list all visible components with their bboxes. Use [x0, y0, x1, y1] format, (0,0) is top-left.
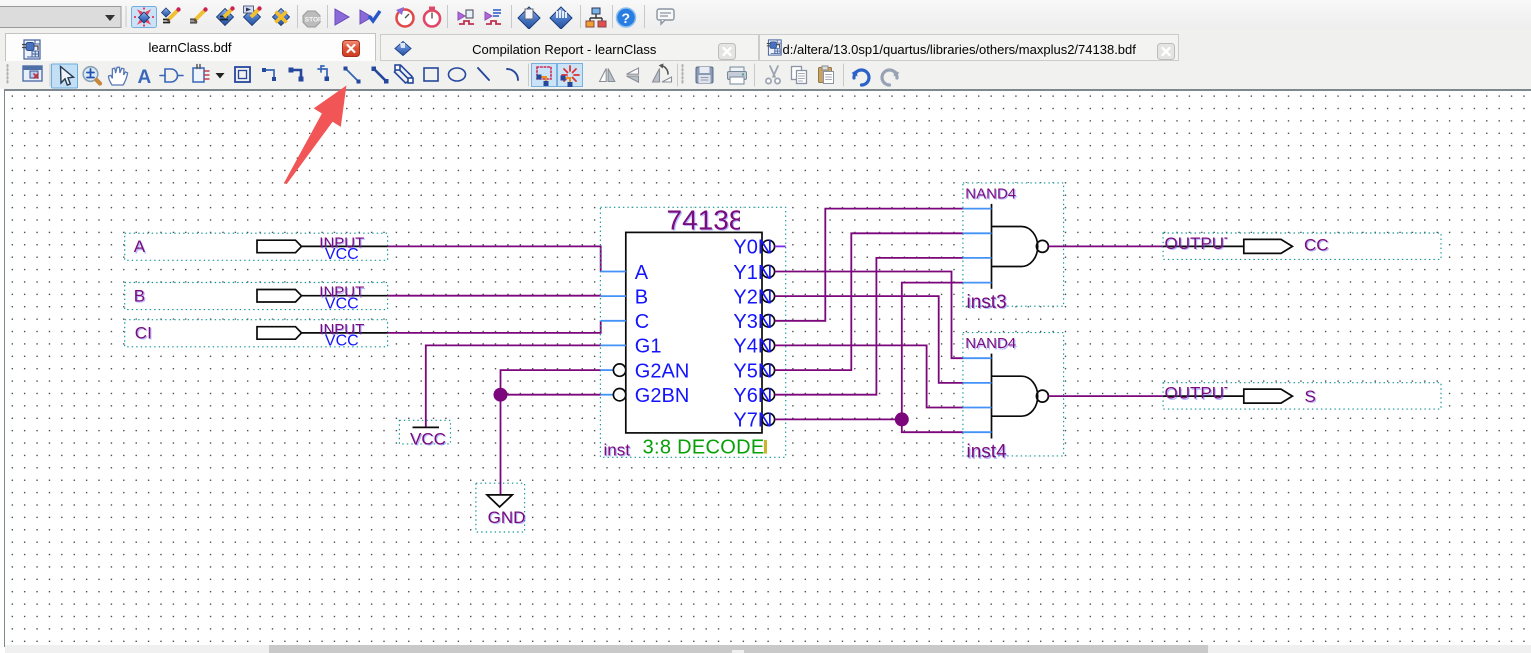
redo	[882, 70, 899, 85]
NAND4 gate inst3	[963, 183, 1064, 314]
output pin CC	[1163, 233, 1441, 259]
output bubbles Y0N-Y7N	[762, 240, 774, 252]
wire junction to NAND4 inst4 input 4	[902, 419, 963, 432]
print	[728, 67, 747, 84]
paste	[819, 66, 834, 84]
partial line off	[558, 64, 583, 87]
pin B stub	[601, 295, 626, 297]
undo	[852, 70, 869, 85]
wire input B to 74138 pin B	[388, 295, 601, 297]
symbol tool	[160, 69, 183, 82]
junction node Y7	[895, 412, 909, 426]
dropdown	[216, 73, 225, 79]
wire NAND4 inst4 output to pin S	[1048, 395, 1163, 397]
wire Y2N to NAND4 inst4 input 2	[775, 296, 963, 383]
diagonal conduit tool	[395, 65, 414, 83]
zoom tool	[83, 67, 100, 84]
run button	[335, 9, 349, 25]
wire Y7N to junction	[775, 418, 902, 420]
cut	[766, 66, 780, 84]
selection tool (active)	[52, 64, 78, 88]
flip vertical	[627, 68, 639, 82]
partial line on	[532, 64, 557, 87]
block tool	[193, 65, 209, 83]
line tool	[478, 68, 489, 80]
NAND4 gate inst4	[963, 333, 1064, 464]
ellipse tool	[449, 68, 466, 81]
assignment editor diamond	[518, 7, 540, 29]
input pin A	[125, 233, 388, 263]
copy	[792, 67, 807, 84]
input pin B	[125, 283, 388, 313]
wire Y6N to NAND4 inst3 input 3	[775, 258, 963, 395]
input pin CI	[125, 320, 388, 350]
wire VCC to 74138 pin G1	[426, 345, 601, 427]
output pin S	[1163, 383, 1441, 409]
detach window icon	[23, 66, 42, 81]
wire junction to NAND4 inst3 input 4	[902, 283, 963, 420]
wire Y5N to NAND4 inst3 input 2	[775, 233, 963, 370]
grip	[7, 65, 9, 85]
pin A stub	[601, 271, 626, 273]
help	[617, 8, 636, 27]
wire input A to 74138 pin A	[388, 246, 601, 271]
wire node to 74138 pin G2AN	[501, 370, 601, 395]
netlist viewers	[458, 10, 474, 24]
pin C stub	[601, 320, 626, 322]
74138 decoder symbol (inst)	[600, 205, 785, 461]
save	[696, 67, 713, 83]
wire Y4N to NAND4 inst4 input 3	[775, 345, 963, 407]
svg-text:A: A	[138, 67, 152, 88]
arc tool	[507, 69, 518, 80]
feedback bubble	[657, 9, 674, 24]
frame tool	[235, 67, 250, 82]
ground symbol GND	[476, 483, 527, 532]
stop button (disabled)	[303, 11, 323, 27]
orthogonal bus tool	[289, 68, 304, 82]
wire NAND4 inst3 output to pin CC	[1048, 245, 1163, 247]
pin G2BN stub and bubble	[601, 394, 614, 396]
analysis buttons	[162, 7, 181, 22]
hierarchy	[586, 8, 606, 27]
svg-text:STOP: STOP	[305, 17, 323, 24]
diagonal bus tool	[372, 67, 389, 84]
junction node G2	[494, 388, 508, 402]
wire Y0N stub (unconnected)	[775, 245, 786, 247]
combo box	[0, 7, 121, 28]
hand tool	[109, 67, 128, 85]
red annotation arrow	[284, 86, 346, 185]
wire Y3N to NAND4 inst3 input 1	[775, 209, 963, 321]
active tab learnClass.bdf	[5, 33, 376, 61]
orthogonal conduit tool	[318, 66, 329, 81]
tab 74138.bdf	[759, 34, 1179, 61]
orthogonal node tool	[262, 68, 276, 81]
wire node to 74138 pin G2BN	[501, 394, 601, 396]
tab Compilation Report	[380, 34, 759, 61]
selection backing fills	[125, 183, 1441, 532]
wire input CI to 74138 pin C	[388, 321, 601, 333]
svg-text:?: ?	[622, 10, 631, 26]
wire node to GND	[500, 395, 502, 495]
timing buttons	[396, 7, 414, 27]
diagonal node tool	[344, 67, 361, 84]
run with check	[360, 10, 380, 24]
VCC symbol	[399, 420, 450, 449]
pin G2AN stub and bubble	[601, 369, 614, 371]
highlighted smart-compile button	[132, 7, 157, 28]
rectangle tool	[424, 68, 438, 81]
pin G1 stub	[601, 344, 626, 346]
wire Y1N to NAND4 inst4 input 1	[775, 272, 963, 359]
flip horizontal	[600, 69, 615, 82]
rotate	[653, 64, 672, 83]
